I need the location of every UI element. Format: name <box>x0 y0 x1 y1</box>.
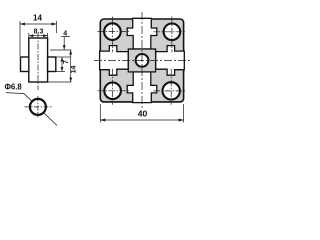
left T-slot void <box>100 46 129 76</box>
dimension 8.3 (slot opening width): extension lines, dimension line, arrows <box>29 33 48 38</box>
svg-text:40: 40 <box>138 109 148 119</box>
corner hole centerlines (top-right) <box>154 17 187 53</box>
left detail view: left side tab <box>21 57 29 72</box>
corner hole centerlines (bottom-left) <box>98 69 131 105</box>
profile vertical centerline <box>141 12 143 109</box>
right T-slot void <box>156 46 185 76</box>
hole detail circle: horizontal centerline <box>25 106 53 108</box>
dimension 4 (lip depth): tick, dimension line, arrow, datum extension line <box>50 36 72 50</box>
dimension 14 (top width): extension lines, dimension line, arrows <box>20 21 57 56</box>
svg-text:14: 14 <box>70 66 77 74</box>
svg-text:14: 14 <box>33 14 42 23</box>
bottom T-slot void <box>127 72 157 103</box>
center boss <box>128 49 155 72</box>
corner hole (bottom-right) <box>163 82 180 99</box>
hole detail circle (diameter 6.8) <box>30 99 46 115</box>
svg-text:7: 7 <box>63 60 70 64</box>
left detail view: right side tab <box>48 57 56 72</box>
svg-text:8.3: 8.3 <box>34 29 44 36</box>
40x40 profile section: outer body (gray aluminium material) <box>100 19 183 102</box>
dimension 7 (tab height): extension lines, dimension line, arrows <box>57 57 71 72</box>
dimension 40 (profile width): extension lines, dimension line, arrows <box>100 104 183 123</box>
center bore hole <box>136 54 149 67</box>
top T-slot void <box>127 18 157 49</box>
corner hole (top-left) <box>104 23 121 40</box>
left detail view: T-slot core bar outline <box>29 38 48 82</box>
dimension 14 (right vertical depth): dimension line, arrows, datum extension line <box>48 50 73 82</box>
svg-text:Φ6.8: Φ6.8 <box>5 83 23 92</box>
leader line from PHI 6.8 label through hole <box>6 93 57 126</box>
profile horizontal centerline <box>94 59 190 61</box>
corner hole (bottom-left) <box>104 83 121 100</box>
left detail view: vertical centerline <box>37 33 39 90</box>
corner hole centerlines (top-left) <box>98 17 131 53</box>
corner hole (top-right) <box>164 24 181 41</box>
hole detail circle: vertical centerline <box>37 96 39 118</box>
corner hole centerlines (bottom-right) <box>154 69 187 105</box>
svg-text:4: 4 <box>63 31 67 38</box>
